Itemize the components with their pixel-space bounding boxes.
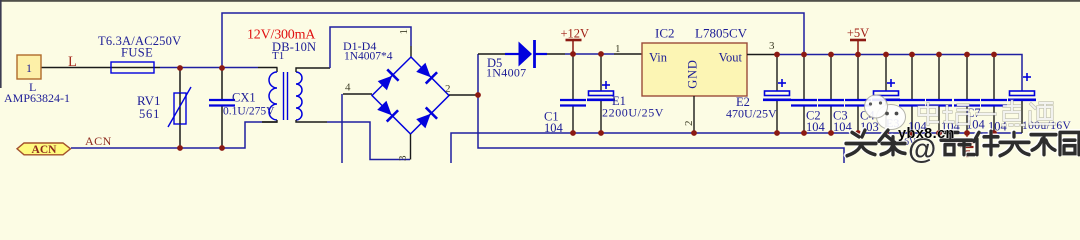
svg-text:ACN: ACN (32, 144, 58, 156)
power +5V (857, 40, 859, 54)
svg-text:+5V: +5V (847, 26, 869, 40)
svg-text:IC2: IC2 (655, 26, 675, 41)
transformer T1 secondary winding (296, 72, 302, 120)
wire: +12V rail (478, 53, 505, 55)
bridge pin 4 lead (343, 93, 372, 95)
watermark text dianlu yidiantong (white outlined glyphs) (919, 101, 1054, 125)
capacitor C8 (981, 55, 1007, 133)
svg-text:470U/25V: 470U/25V (726, 107, 777, 121)
svg-text:0.1U/275V: 0.1U/275V (223, 106, 275, 118)
wire: ACN line (71, 122, 262, 148)
svg-text:Vout: Vout (719, 51, 743, 65)
transformer T1 core (283, 72, 285, 120)
svg-text:104: 104 (806, 120, 826, 134)
svg-text:AMP63824-1: AMP63824-1 (4, 91, 70, 105)
svg-text:1: 1 (398, 29, 410, 35)
wire: secondary top to bridge AC1 (330, 27, 411, 68)
capacitor E3 (872, 55, 900, 133)
svg-text:1: 1 (615, 43, 621, 55)
diode D2 (top-right) (415, 62, 437, 84)
svg-text:2: 2 (445, 83, 451, 95)
port ACN (17, 143, 71, 155)
sheet background (0, 0, 1080, 163)
capacitor CX1 plates (209, 99, 235, 101)
top border line (0, 0, 1080, 2)
transformer T1 primary lead top (276, 68, 278, 73)
watermark logo chick (865, 95, 906, 130)
transformer T1 primary winding (269, 72, 277, 120)
svg-text:GND: GND (686, 59, 700, 88)
capacitor C1 leads (572, 54, 574, 99)
watermark bottom band toutiao (drawn glyph strokes) (845, 130, 1079, 166)
svg-text:561: 561 (139, 107, 160, 121)
svg-text:T1: T1 (272, 50, 284, 62)
capacitor E1 leads (600, 54, 602, 91)
varistor RV1 leads (179, 68, 181, 148)
IC IC2 L7805CV box (642, 43, 747, 96)
capacitor E4 (1008, 73, 1036, 133)
fuse F1 body (111, 62, 154, 73)
svg-text:2: 2 (683, 121, 695, 127)
capacitor C1 plates (560, 99, 586, 101)
svg-text:+12V: +12V (561, 27, 590, 41)
transformer T1 secondary lead top (296, 68, 330, 72)
svg-text:2200U/25V: 2200U/25V (602, 106, 664, 120)
power +12V (572, 40, 574, 54)
svg-text:ACN: ACN (85, 134, 112, 148)
capacitor C2 (791, 55, 817, 133)
transformer T1 primary lead bottom (262, 120, 277, 122)
svg-text:1: 1 (26, 61, 32, 75)
wire: +5V rail (777, 55, 1022, 92)
svg-text:3: 3 (769, 40, 775, 52)
IC pin 3 lead (747, 54, 777, 56)
svg-text:1N4007: 1N4007 (486, 66, 526, 80)
svg-text:ybx8.cn: ybx8.cn (898, 126, 955, 142)
diode D4 (bottom-right) (415, 107, 437, 129)
svg-text:L7805CV: L7805CV (695, 26, 748, 41)
diode D3 (bottom-left) (376, 100, 398, 122)
wire: L line from connector to transformer primary top (41, 67, 160, 69)
svg-text:L: L (68, 54, 77, 70)
capacitor CX1 leads (221, 68, 223, 99)
wire: bridge plus riser (478, 54, 844, 163)
svg-text:4: 4 (345, 82, 351, 94)
varistor RV1 body (174, 93, 186, 124)
wire: bridge minus down (341, 94, 343, 163)
svg-text:FUSE: FUSE (121, 46, 153, 60)
ground symbol (956, 133, 978, 156)
transformer T1 secondary lead bottom (296, 120, 327, 122)
capacitor E2 (763, 55, 791, 133)
connector P1 AMP63824-1 (17, 55, 41, 79)
svg-text:1N4007*4: 1N4007*4 (344, 51, 393, 63)
wire: top loop from L junction to +5V rail (222, 13, 804, 68)
left border line (0, 0, 2, 88)
svg-text:Vin: Vin (649, 51, 668, 65)
bridge pin 2 lead (449, 94, 478, 96)
svg-text:CX1: CX1 (232, 91, 256, 105)
IC pin 2 lead (693, 96, 695, 133)
diode D1 (top-left) (377, 69, 399, 91)
capacitor C3 (818, 55, 844, 133)
bridge rectifier D1-D4 diamond (372, 57, 449, 134)
capacitor C5 (899, 55, 925, 133)
diode D5 (505, 53, 519, 55)
capacitor E1 electrolytic (589, 91, 614, 96)
svg-text:RV1: RV1 (137, 93, 161, 108)
wire: ground rail (451, 133, 1022, 163)
capacitor C7 (954, 55, 980, 133)
svg-text:3: 3 (397, 155, 409, 161)
wire: secondary bottom to bridge AC2 (327, 122, 410, 160)
capacitor C6 (926, 55, 952, 133)
capacitor C4 (845, 55, 871, 133)
bridge pin 3 lead (410, 134, 412, 160)
